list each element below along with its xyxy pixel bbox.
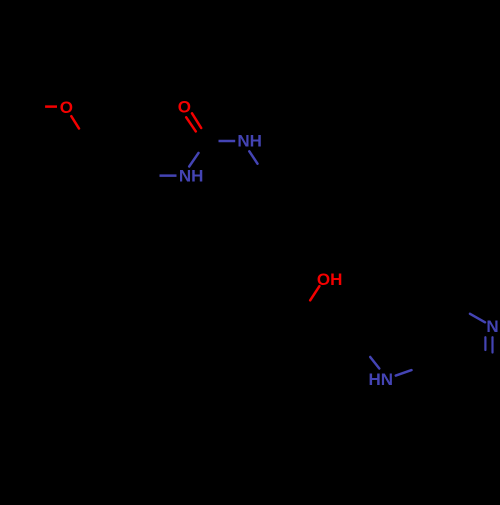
svg-text:HN: HN	[369, 370, 394, 389]
double bond N4=C line b (N half)	[491, 337, 493, 352]
double bond C=O line 1 (O half)	[192, 113, 201, 128]
bond aryl-N (N half)	[160, 174, 177, 177]
bond O-C aryl (O half)	[71, 116, 79, 128]
svg-text:OH: OH	[317, 270, 343, 289]
svg-text:NH: NH	[179, 167, 204, 186]
bond O-C (O half)	[310, 286, 319, 300]
bond N-CH2 (N half)	[249, 151, 257, 163]
double bond N4=C line a (N half)	[484, 337, 486, 350]
bond N-C carbonyl (N half)	[189, 153, 198, 167]
bond C5-N4 pyridine (N half)	[470, 314, 485, 323]
bond C2-N1 pyrrole (N half)	[370, 357, 379, 369]
bond CH3-O (methoxy, O half)	[45, 105, 57, 108]
svg-text:O: O	[60, 98, 73, 117]
bond C carbonyl-N (N half)	[219, 140, 236, 143]
bond N1-C7a (N half)	[396, 370, 412, 376]
double bond C=O line 2 (O half)	[186, 117, 196, 131]
svg-text:N: N	[486, 317, 498, 336]
svg-text:O: O	[178, 97, 191, 116]
svg-text:NH: NH	[237, 132, 262, 151]
